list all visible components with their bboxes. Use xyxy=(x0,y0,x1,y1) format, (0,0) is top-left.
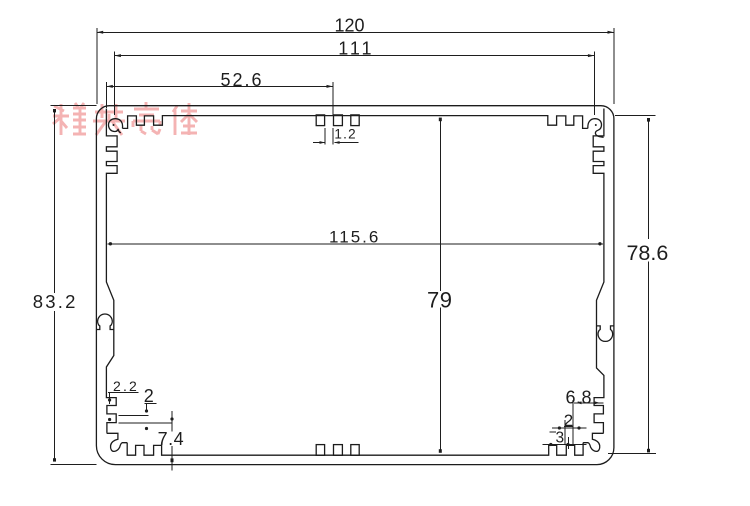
dim 83.2 extension lines xyxy=(51,106,97,465)
svg-text:83.2: 83.2 xyxy=(33,291,78,312)
left keyhole slot xyxy=(96,314,113,330)
dim 2.2 leader xyxy=(109,393,111,405)
111 arrows xyxy=(115,54,121,57)
top middle rib 2 xyxy=(334,115,343,126)
dim 52.6 extension lines xyxy=(106,82,333,115)
dim 120 extension lines xyxy=(97,28,614,104)
char 4 ti xyxy=(173,103,197,135)
svg-text:79: 79 xyxy=(427,288,452,313)
top middle rib 1 xyxy=(316,115,324,126)
bottom middle rib 2 xyxy=(334,445,343,456)
left wall inner edge xyxy=(106,109,117,433)
dim 2.2 underline xyxy=(108,392,138,394)
dim 3 line xyxy=(543,432,587,449)
dim 1.2 leader lines xyxy=(313,142,359,144)
dim 2 left leader xyxy=(146,404,148,412)
dim 6.8 leaders xyxy=(574,402,603,404)
dim lines left notch xyxy=(119,416,173,424)
svg-text:3: 3 xyxy=(555,430,564,447)
dim 78.6 line xyxy=(648,119,650,452)
top-left screw boss xyxy=(108,119,122,133)
dim 7.4 vertical xyxy=(171,411,173,471)
bottom-right screw boss xyxy=(583,433,604,451)
svg-text:1.2: 1.2 xyxy=(334,127,356,142)
svg-text:2.2: 2.2 xyxy=(113,378,139,394)
char 2 ying xyxy=(93,104,125,135)
1.2 dots xyxy=(320,141,326,144)
bottom middle rib 3 xyxy=(351,445,359,456)
char 3 ke xyxy=(133,102,160,134)
79 dots xyxy=(439,118,442,122)
svg-text:120: 120 xyxy=(334,15,364,35)
svg-text:2: 2 xyxy=(144,386,154,406)
svg-text:6.8: 6.8 xyxy=(566,388,593,408)
dim 2 right extension line xyxy=(565,400,573,445)
right notch arrows xyxy=(577,401,582,404)
svg-text:111: 111 xyxy=(338,39,374,59)
svg-text:7.4: 7.4 xyxy=(158,429,185,449)
inner top edge with corner ribs xyxy=(122,116,587,129)
dim 79 line xyxy=(439,119,441,452)
dim 52.6 line xyxy=(106,85,333,87)
78.6 dots xyxy=(647,118,650,122)
svg-text:52.6: 52.6 xyxy=(220,70,263,90)
dim 120 line xyxy=(97,31,614,33)
bottom-left screw boss xyxy=(107,433,128,451)
dim 83.2 line xyxy=(54,109,56,461)
svg-text:2: 2 xyxy=(564,411,573,430)
boss hole dots xyxy=(113,124,597,126)
inner bottom edge with corner ribs xyxy=(127,443,583,456)
52.6 arrows xyxy=(106,85,112,88)
top-right screw boss xyxy=(588,119,604,138)
outer profile xyxy=(96,106,614,465)
top middle rib 3 xyxy=(351,115,359,126)
char 1 jing xyxy=(53,103,86,135)
dim 78.6 extension lines xyxy=(608,116,656,454)
svg-text:78.6: 78.6 xyxy=(626,241,668,265)
right keyhole slot xyxy=(597,326,614,342)
dimension texts xyxy=(33,15,669,449)
dim 1.2 ticks xyxy=(325,128,333,144)
arrowheads xyxy=(53,31,650,462)
115.6 dots xyxy=(109,242,112,245)
dim 2 right underline xyxy=(564,426,573,428)
dim 115.6 line xyxy=(107,243,603,245)
bottom middle rib 1 xyxy=(316,445,324,456)
dim 111 line xyxy=(115,55,595,57)
120 arrows xyxy=(97,31,103,34)
left notch arrows xyxy=(108,398,111,401)
dim 2 right line xyxy=(552,427,587,429)
dim 111 extension lines xyxy=(115,52,595,115)
83.2 ticks xyxy=(53,109,56,112)
svg-text:115.6: 115.6 xyxy=(329,228,380,247)
watermark 精英壳体 xyxy=(53,102,197,135)
dim 2 left underline xyxy=(145,403,157,405)
right wall inner edge xyxy=(593,109,604,433)
